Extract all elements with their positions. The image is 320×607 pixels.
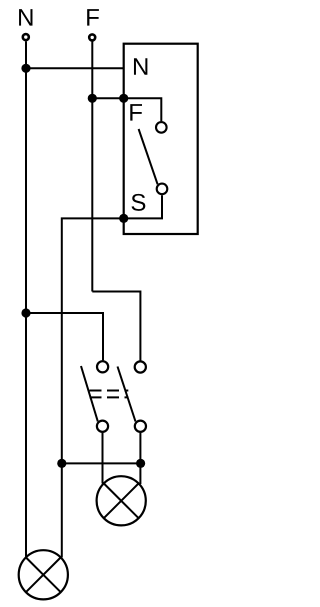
contact circle S2b top [135, 361, 146, 372]
lamp L1 circle [97, 476, 146, 525]
wire box internal F feed [124, 98, 162, 121]
switch lever S2a [81, 366, 98, 421]
wire F vertical [91, 41, 93, 291]
lamp L2 circle [19, 550, 68, 599]
junction dot N branch 2 [21, 308, 30, 317]
junction dot box F terminal [119, 94, 128, 103]
label N supply [19, 9, 32, 26]
box U1 switch unit [124, 44, 198, 234]
switch lever box [139, 129, 158, 184]
contact circle S2a bottom [97, 421, 108, 432]
wire F to box [92, 97, 123, 99]
label F supply [87, 9, 99, 26]
wire S to lamp L2 [61, 463, 63, 557]
lamp L2 cross [26, 558, 61, 593]
contact circle S box [157, 184, 168, 195]
junction dot N-to-box [21, 64, 30, 73]
lamp L1 cross [104, 484, 139, 519]
wire N branch to switch S2a [26, 313, 103, 360]
wire S run to junction [62, 218, 124, 463]
wire N to box [26, 67, 124, 69]
label F box [130, 104, 142, 121]
wire S output from box [124, 195, 162, 218]
label S box [131, 194, 145, 211]
wire S2b down [139, 433, 141, 484]
junction dot S at box edge [119, 214, 128, 223]
label N box [134, 58, 147, 75]
switch lever S2b [118, 367, 136, 422]
wire S2a to lamp L1 [102, 433, 104, 484]
mechanical link dashed lower [90, 396, 129, 398]
junction dot F branch [88, 94, 97, 103]
wire N vertical [25, 41, 27, 556]
junction dot S bar [57, 459, 66, 468]
contact circle S2a top [97, 361, 108, 372]
wire junction bar [62, 462, 141, 464]
terminal F [89, 34, 95, 40]
contact circle S2b bottom [135, 421, 146, 432]
mechanical link dashed upper [90, 390, 129, 392]
terminal N [23, 34, 29, 40]
wire F jog to switch S2b [92, 292, 140, 361]
junction dot S2b bar [136, 459, 145, 468]
contact circle F box [156, 122, 167, 133]
